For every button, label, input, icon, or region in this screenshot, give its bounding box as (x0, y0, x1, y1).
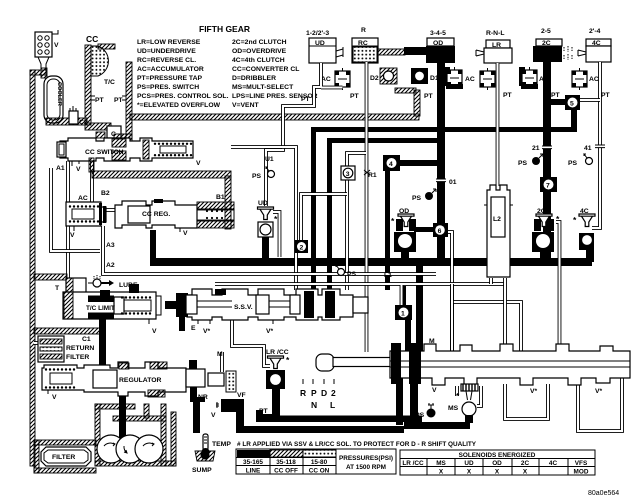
svg-text:1: 1 (401, 311, 405, 318)
wire PCS output line B (236, 426, 404, 433)
svg-text:CC=CONVERTER CL: CC=CONVERTER CL (232, 66, 299, 73)
svg-text:P: P (311, 388, 317, 398)
wire return filter inlet (34, 341, 40, 345)
valve CC SWITCH (56, 132, 201, 173)
svg-text:T/C: T/C (104, 79, 115, 86)
svg-text:PCS: PCS (223, 404, 238, 411)
valve manual (bottom right) (316, 338, 630, 395)
PS 4C line (568, 154, 593, 167)
valve REGULATOR (42, 362, 186, 401)
svg-text:RC: RC (358, 40, 368, 47)
svg-text:V: V (196, 160, 201, 167)
svg-text:U1: U1 (265, 156, 274, 163)
svg-text:PT=PRESSURE TAP: PT=PRESSURE TAP (137, 75, 202, 82)
svg-text:FILTER: FILTER (52, 454, 75, 461)
svg-text:2: 2 (300, 245, 304, 252)
PS OD line (412, 189, 436, 202)
converter right wall (126, 62, 132, 141)
valve L2 (484, 185, 513, 277)
FILTER (34, 440, 96, 473)
svg-text:T/C LIMIT: T/C LIMIT (86, 305, 115, 312)
wire LPS MS line (404, 422, 470, 429)
wire SSV left cap feed (165, 301, 176, 309)
wire 4C line to solenoid (592, 62, 600, 228)
ball 7 (540, 177, 557, 192)
svg-text:V*: V* (595, 388, 603, 395)
svg-text:PS: PS (518, 160, 528, 167)
svg-text:V: V (52, 394, 57, 401)
accumulator AC3 (480, 68, 495, 90)
svg-text:AC: AC (78, 195, 88, 202)
wire manual valve loop V* (505, 384, 548, 419)
wire bus down to manual valve (416, 262, 423, 354)
wire line B up corner (236, 412, 244, 428)
converter left wall (85, 45, 91, 125)
clutch UD (306, 30, 343, 63)
accumulator AC (CC REG) (66, 195, 106, 239)
wire CC REG drop to bus (150, 230, 156, 260)
svg-text:MS: MS (448, 405, 459, 412)
valve C2 (69, 106, 88, 126)
svg-text:CC SWITCH: CC SWITCH (85, 149, 124, 156)
PCS solenoid (211, 399, 244, 419)
svg-text:V*: V* (530, 388, 538, 395)
orifice gaps on lines (436, 145, 605, 186)
svg-text:21: 21 (532, 145, 540, 152)
PS 2C line (518, 154, 543, 167)
svg-text:UD: UD (258, 200, 268, 207)
svg-text:X: X (495, 469, 500, 476)
wire R1 loop (347, 153, 366, 290)
svg-text:N: N (311, 400, 317, 410)
svg-text:15-80: 15-80 (311, 459, 328, 466)
svg-text:2: 2 (331, 388, 336, 398)
wire ball6 loop down to manual valve (448, 232, 521, 352)
svg-text:80a0e564: 80a0e564 (588, 490, 619, 497)
svg-text:R: R (300, 388, 306, 398)
svg-text:M: M (429, 338, 435, 345)
ball 6 (433, 223, 448, 237)
wire corner2 down to SSV (327, 138, 332, 293)
wire bus corner1 down to SSV (311, 127, 316, 293)
wire L1b line (215, 284, 505, 306)
solenoid table (400, 450, 595, 476)
solenoid LR/CC (266, 349, 290, 389)
svg-text:R1: R1 (368, 172, 377, 179)
accumulator AC2 black (444, 67, 475, 89)
svg-text:# LR APPLIED VIA SSV & LR/CC S: # LR APPLIED VIA SSV & LR/CC SOL. TO PRO… (237, 441, 477, 448)
svg-text:PT: PT (503, 92, 513, 99)
svg-text:L1: L1 (384, 272, 392, 279)
svg-text:2-5: 2-5 (541, 28, 551, 35)
wire 2C sol loop to manual valve (556, 222, 560, 352)
svg-text:V: V (432, 387, 437, 394)
svg-text:PS: PS (252, 173, 262, 180)
wire vent to cooler junction (41, 68, 47, 78)
LUBE outlet (88, 275, 138, 289)
wire U1 line to SSV (231, 147, 296, 290)
wire UD sol overflow (273, 212, 280, 257)
svg-text:AC: AC (589, 76, 599, 83)
svg-text:PT: PT (601, 92, 611, 99)
svg-text:V: V (54, 42, 59, 49)
svg-text:4: 4 (389, 161, 393, 168)
svg-text:TEMP: TEMP (212, 441, 231, 448)
svg-text:6: 6 (438, 228, 442, 235)
svg-text:VFS: VFS (575, 460, 588, 467)
svg-text:PS: PS (568, 160, 578, 167)
svg-text:S.S.V.: S.S.V. (234, 304, 253, 311)
clutch LR (476, 30, 512, 63)
svg-text:UD: UD (464, 460, 474, 467)
ball 3 (341, 166, 355, 180)
accumulator AC5 (572, 68, 599, 90)
svg-text:2C=2nd CLUTCH: 2C=2nd CLUTCH (232, 39, 287, 46)
svg-text:UD: UD (315, 40, 325, 47)
svg-text:A2: A2 (106, 262, 115, 269)
svg-text:V*: V* (203, 328, 211, 335)
svg-text:V: V (70, 232, 75, 239)
svg-text:OD: OD (492, 460, 502, 467)
svg-text:OD=OVERDRIVE: OD=OVERDRIVE (232, 48, 287, 55)
svg-text:PS: PS (412, 195, 422, 202)
wire 4C sol base (579, 233, 594, 262)
svg-text:3-4-5: 3-4-5 (430, 30, 446, 37)
svg-text:FILTER: FILTER (66, 354, 89, 361)
svg-text:01: 01 (449, 179, 457, 186)
svg-text:LPS: LPS (411, 412, 425, 419)
wire 2C to ball5 (551, 99, 567, 105)
svg-text:PRESSURES(PSI): PRESSURES(PSI) (339, 455, 393, 462)
PS L1 (336, 265, 357, 278)
solenoid MS (448, 384, 478, 423)
svg-text:LINE: LINE (246, 468, 261, 475)
svg-text:R: R (361, 27, 366, 34)
wire main line bus (150, 258, 592, 266)
converter feed hatched line (130, 114, 419, 120)
wire upper 2C bus (311, 127, 577, 132)
svg-text:*=ELEVATED OVERFLOW: *=ELEVATED OVERFLOW (137, 102, 221, 109)
PT taps converter (91, 96, 95, 100)
svg-text:D2: D2 (370, 75, 379, 82)
svg-text:L: L (330, 400, 335, 410)
clutch RC (352, 27, 378, 63)
svg-text:35-118: 35-118 (276, 459, 296, 466)
wire LRCC sol drop (272, 387, 280, 419)
RETURN FILTER (38, 336, 94, 362)
wire NR down to line B (193, 400, 200, 433)
svg-text:RC=REVERSE CL.: RC=REVERSE CL. (137, 57, 196, 64)
solenoid OD (391, 208, 416, 252)
svg-text:PT: PT (114, 97, 124, 104)
dribbler D2 (370, 68, 397, 84)
wire ball4 horizontal (391, 160, 441, 166)
valve T (thermal) (34, 274, 86, 296)
ball 2 (295, 240, 308, 253)
ball 1 (395, 305, 412, 320)
svg-text:V: V (211, 412, 216, 419)
pump enclosure (95, 404, 176, 466)
solenoid 4C (573, 208, 595, 246)
solenoid UD (258, 200, 279, 237)
wire ball4 drop to SSV (385, 168, 390, 290)
wire cooler to converter hatched (46, 118, 87, 125)
valve SSV (176, 289, 368, 335)
wire line A left stub (256, 410, 263, 418)
wire regulator top ports black (189, 360, 197, 370)
svg-text:COOLER: COOLER (56, 82, 62, 106)
valve T/C LIMIT (63, 284, 161, 335)
wire manual valve loop V* right (578, 378, 622, 431)
svg-text:CC REG.: CC REG. (142, 211, 170, 218)
LPS sensor (411, 403, 436, 419)
svg-text:C1: C1 (82, 336, 91, 343)
wire ball1 feeds (403, 286, 406, 308)
svg-text:SUMP: SUMP (192, 467, 212, 474)
svg-text:MOD: MOD (574, 469, 589, 476)
svg-text:V=VENT: V=VENT (232, 102, 259, 109)
svg-text:3: 3 (346, 171, 350, 178)
wire ball5 drop (571, 109, 577, 129)
accumulator AC1 (321, 68, 350, 90)
wire M port stub (220, 352, 224, 372)
wire RC reverse line (365, 62, 369, 352)
wire UD clutch line (266, 63, 343, 206)
legend left column (137, 39, 229, 109)
pump gerotors (97, 435, 163, 463)
svg-text:MS: MS (436, 460, 446, 467)
svg-text:VF: VF (237, 392, 246, 399)
svg-text:MS=MULT-SELECT: MS=MULT-SELECT (232, 84, 294, 91)
wire OD clutch vertical (437, 62, 445, 258)
SUMP (192, 451, 215, 475)
svg-text:REGULATOR: REGULATOR (119, 377, 162, 384)
dribbler sprinkle by 2C (564, 46, 572, 60)
svg-text:D: D (321, 388, 327, 398)
svg-text:2C: 2C (542, 40, 551, 47)
wire OD sol to ball6 (414, 227, 435, 232)
wire A1 line (66, 161, 70, 280)
svg-text:7: 7 (546, 183, 550, 190)
pressure table (236, 449, 396, 475)
svg-text:LR=LOW REVERSE: LR=LOW REVERSE (137, 39, 201, 46)
legend right column (232, 39, 318, 109)
accumulator AC4 black (519, 67, 549, 89)
svg-text:X: X (439, 469, 444, 476)
wire LR line to L2 (496, 63, 500, 186)
hatched band CC circuit (89, 158, 94, 172)
wire L1 line (103, 226, 436, 274)
wire ball5 to 4C line (579, 98, 600, 102)
svg-text:1-2/2'-3: 1-2/2'-3 (306, 30, 329, 37)
svg-text:4C: 4C (549, 460, 558, 467)
svg-text:X: X (523, 469, 528, 476)
svg-text:2'-4: 2'-4 (589, 28, 601, 35)
ball 4 (383, 155, 400, 171)
PT labels top row (301, 92, 611, 103)
clutch OD (applied) (426, 30, 455, 63)
svg-text:OD: OD (433, 40, 443, 47)
svg-text:4C=4th CLUTCH: 4C=4th CLUTCH (232, 57, 285, 64)
svg-text:V: V (76, 166, 81, 173)
dribbler D1 (411, 68, 439, 84)
svg-text:RETURN: RETURN (66, 345, 94, 352)
wire RC to OD hatched (378, 49, 405, 55)
wire SSV to LRCC sol (232, 320, 270, 366)
svg-text:AC: AC (465, 76, 475, 83)
svg-text:SOLENOIDS ENERGIZED: SOLENOIDS ENERGIZED (459, 452, 536, 459)
wire RC-OD black (404, 47, 428, 55)
svg-text:V: V (183, 230, 188, 237)
svg-text:E: E (191, 325, 196, 332)
clutch 4C (578, 28, 611, 62)
wire B2 line (92, 161, 116, 210)
svg-text:M: M (217, 351, 223, 358)
svg-text:NR: NR (198, 394, 208, 401)
ball 5 (565, 95, 580, 110)
vent reservoir (35, 30, 59, 70)
cooler (44, 76, 63, 123)
svg-text:PT: PT (350, 93, 360, 100)
PS U1 (252, 167, 275, 180)
svg-text:L2: L2 (493, 216, 501, 223)
wire L2 bottom to manual valve (452, 278, 491, 352)
wire regulator to pump (119, 392, 126, 438)
svg-text:CC: CC (86, 34, 98, 44)
manual valve position letters (300, 379, 336, 410)
NR check valve assembly (186, 351, 246, 401)
svg-text:PT: PT (301, 96, 311, 103)
wire manual valve left feeds (396, 372, 403, 425)
svg-text:PCS=PRES. CONTROL SOL.: PCS=PRES. CONTROL SOL. (137, 93, 229, 100)
svg-text:PT: PT (424, 93, 434, 100)
svg-text:35-165: 35-165 (243, 459, 263, 466)
wire A1b line (51, 168, 100, 251)
svg-text:CC ON: CC ON (309, 468, 330, 475)
wire MS loop (457, 386, 481, 406)
svg-text:CC OFF: CC OFF (274, 468, 298, 475)
clutch 2C (applied) (533, 28, 562, 62)
svg-text:R-N-L: R-N-L (486, 30, 505, 37)
wire NR to PCS (190, 386, 205, 402)
svg-text:5: 5 (570, 101, 574, 108)
svg-text:41: 41 (584, 145, 592, 152)
svg-text:PT: PT (95, 97, 105, 104)
C1 line hatched (34, 328, 100, 334)
svg-text:LR /CC: LR /CC (402, 460, 424, 467)
svg-text:V: V (152, 328, 157, 335)
solenoid 2C (532, 208, 560, 252)
wire sol drops to bus (262, 235, 269, 259)
svg-text:B1: B1 (216, 194, 225, 201)
valve C (107, 126, 121, 138)
svg-text:D=DRIBBLER: D=DRIBBLER (232, 75, 276, 82)
svg-text:A1: A1 (56, 165, 65, 172)
svg-text:PS=PRES. SWITCH: PS=PRES. SWITCH (137, 84, 199, 91)
svg-text:B2: B2 (101, 190, 110, 197)
torque converter T/C dome (91, 46, 108, 76)
svg-text:2C: 2C (521, 460, 530, 467)
svg-text:A3: A3 (106, 242, 115, 249)
wire corner2 horizontal (327, 138, 441, 143)
wire T/C LIMIT drop (99, 316, 106, 368)
svg-text:PT: PT (259, 408, 269, 415)
svg-text:PT: PT (551, 92, 561, 99)
svg-text:AC=ACCUMULATOR: AC=ACCUMULATOR (137, 66, 204, 73)
wire LRCC output line A (256, 416, 422, 423)
valve CC REG (115, 194, 234, 237)
svg-text:X: X (467, 469, 472, 476)
wire ball3 to ball2 (301, 194, 347, 241)
TEMP thermometer (202, 434, 232, 456)
svg-text:PS: PS (347, 271, 357, 278)
wire left border hatched (30, 70, 35, 466)
converter bottom path (85, 123, 111, 130)
svg-text:UD=UNDERDRIVE: UD=UNDERDRIVE (137, 48, 196, 55)
wire 2C clutch vertical (543, 62, 551, 258)
svg-text:FIFTH GEAR: FIFTH GEAR (199, 24, 250, 34)
svg-text:AT 1500 RPM: AT 1500 RPM (346, 464, 386, 471)
svg-text:V*: V* (266, 328, 274, 335)
